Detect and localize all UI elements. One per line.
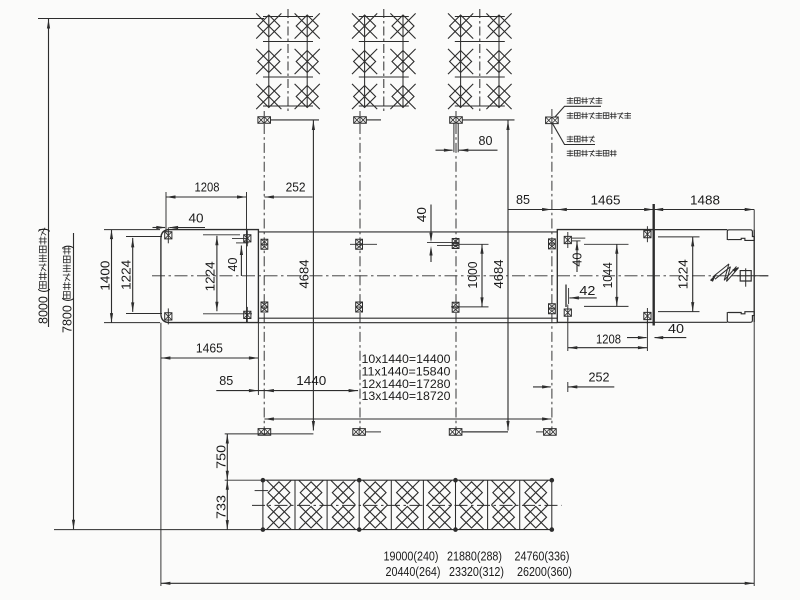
svg-text:1000: 1000 xyxy=(466,261,480,288)
dimension 40 (right of heavy line) xyxy=(627,337,647,339)
bottom anchor bolt x=455.6 xyxy=(449,429,462,436)
dimension line between outer bolt columns xyxy=(264,418,551,420)
band inner bottom edge xyxy=(258,317,557,319)
svg-text:40: 40 xyxy=(415,207,429,222)
leader line 1 (slot hole position) xyxy=(555,106,602,117)
anchor bolt below cluster 3 xyxy=(455,111,457,116)
bolt tail lines at y=120 xyxy=(271,119,319,121)
slot lines for 42 dim xyxy=(565,285,567,308)
anchor bolt below cluster 2 xyxy=(359,111,361,116)
dimension 1224 (inside plate) xyxy=(216,236,218,311)
svg-text:85: 85 xyxy=(219,374,233,388)
svg-text:4684: 4684 xyxy=(492,259,506,288)
dimension 40 (plate top) xyxy=(153,227,166,229)
svg-text:): ) xyxy=(61,245,75,249)
dimension 1465 (left) xyxy=(161,357,259,359)
overall bottom dimension line xyxy=(161,582,754,584)
dimension 1224 (far left) xyxy=(132,238,134,312)
anchor bolt below cluster 1 xyxy=(263,111,265,116)
extension line top (overall height reference) xyxy=(38,18,264,20)
dimension line 85 / 1465 / 1488 (top right) xyxy=(508,209,754,211)
bottom bolt row tail line xyxy=(225,433,314,435)
bolt pair column x=359.1 xyxy=(356,239,363,249)
extension line x=246.5 xyxy=(246,192,248,323)
extension line y=480.2 xyxy=(225,479,263,481)
strip centre line xyxy=(252,504,562,506)
svg-text:1488: 1488 xyxy=(690,194,720,208)
svg-text:7800 (: 7800 ( xyxy=(61,297,75,333)
extension line plate right edge down xyxy=(257,323,259,395)
bolt right plate top-left xyxy=(564,236,571,243)
bolt right plate top-right xyxy=(644,231,651,238)
dimension 750 xyxy=(226,434,228,480)
centre dash line below annotation bolt xyxy=(551,124,553,431)
bolt plate bottom-right xyxy=(244,311,251,318)
dimension 80 xyxy=(436,149,453,151)
dimension 252 (top) xyxy=(264,196,312,198)
svg-text:1440: 1440 xyxy=(296,374,326,388)
bracket bottom edge xyxy=(654,321,728,323)
extension lines for 1000 xyxy=(460,243,489,245)
extension of bracket right edge xyxy=(753,210,755,230)
bolt plate bottom-left xyxy=(165,313,172,320)
bracket top edge xyxy=(654,229,728,231)
svg-text:252: 252 xyxy=(589,371,610,385)
dimension 1208 (top) xyxy=(166,196,247,198)
slot lines (80 dim) below cluster 3 bolt xyxy=(453,124,455,153)
long extension line to 7800 arrow (strip bottom edge) xyxy=(54,529,263,531)
bottom anchor bolt x=549.9 xyxy=(544,429,557,436)
svg-text:21880(288): 21880(288) xyxy=(447,548,502,563)
centre dash line below cluster 2 xyxy=(359,124,361,431)
bottom roller strip frame xyxy=(263,479,552,481)
dimension 1044 xyxy=(616,244,618,306)
roller cluster 1 xyxy=(268,17,270,107)
leader line 2 (round hole position) xyxy=(553,124,596,145)
svg-text:19000(240): 19000(240) xyxy=(384,548,439,563)
svg-text:85: 85 xyxy=(516,193,530,207)
bottom anchor bolt x=264.4 xyxy=(258,429,271,436)
dimension 4684 (right vertical) xyxy=(507,121,509,431)
annotation text: round hole position xyxy=(567,136,574,138)
svg-text:733: 733 xyxy=(214,495,228,519)
bracket top hook xyxy=(727,230,754,241)
svg-text:750: 750 xyxy=(214,445,228,469)
break (zigzag) symbol xyxy=(713,264,729,277)
dimension 8000 line xyxy=(48,19,50,327)
bolt right plate bottom-right xyxy=(644,312,651,319)
svg-text:1400: 1400 xyxy=(99,261,113,291)
roller cluster 3 xyxy=(460,17,462,107)
horizontal centre line of assembly xyxy=(152,275,768,277)
svg-text:): ) xyxy=(37,228,51,232)
svg-text:23320(312): 23320(312) xyxy=(449,564,504,579)
dimension 733 xyxy=(226,480,228,529)
small tick at strip left xyxy=(255,490,269,492)
roller cluster 2 xyxy=(364,17,366,107)
svg-text:1224: 1224 xyxy=(677,259,691,289)
svg-text:252: 252 xyxy=(286,181,306,195)
bolt pair column x=551.9 (left of right plate) xyxy=(549,239,556,249)
extension line x=166 xyxy=(165,192,167,232)
dimension 40 (plate, vertical) xyxy=(240,246,242,277)
bolt plate top-left xyxy=(165,232,172,239)
bolt right plate bottom-left xyxy=(564,309,571,316)
centre dash line below cluster 1 xyxy=(263,124,265,431)
centre dash line below cluster 3 xyxy=(455,124,457,431)
extension lines for 1400 xyxy=(104,229,160,231)
svg-text:1208: 1208 xyxy=(195,181,220,195)
svg-text:1224: 1224 xyxy=(203,261,217,291)
svg-text:4684: 4684 xyxy=(297,259,311,288)
dimension 85 and 1440 line xyxy=(216,390,358,392)
anchor bolt for annotations xyxy=(551,109,553,116)
bolt pair column x=455.6 xyxy=(452,239,459,249)
svg-text:42: 42 xyxy=(579,283,595,298)
dimension 252 (right) xyxy=(533,386,551,388)
right end plate outline xyxy=(557,230,653,323)
extension lines for 1044 xyxy=(584,243,629,245)
annotation text: for anchor expansion bolt hole position xyxy=(567,113,574,115)
extension line plate left edge down xyxy=(160,323,162,586)
svg-text:26200(360): 26200(360) xyxy=(517,564,572,579)
dimension 1400 xyxy=(111,230,113,323)
svg-text:1465: 1465 xyxy=(591,194,621,208)
bracket right edge xyxy=(753,230,755,323)
svg-text:24760(336): 24760(336) xyxy=(515,548,570,563)
svg-text:13x1440=18720: 13x1440=18720 xyxy=(362,389,451,403)
bottom strip diamonds xyxy=(268,482,290,504)
svg-text:1044: 1044 xyxy=(601,262,615,288)
dimension 1208 (right) xyxy=(568,347,648,349)
dimension 40 (right plate, vertical) xyxy=(576,241,578,272)
dimension 1000 xyxy=(481,244,483,307)
junction dots on strip xyxy=(261,478,266,483)
dimension 42 xyxy=(569,297,596,299)
dimension 1224 (right) xyxy=(658,236,700,238)
svg-text:40: 40 xyxy=(189,212,204,226)
annotation text: slot hole position xyxy=(567,98,574,100)
svg-text:1465: 1465 xyxy=(196,342,223,356)
band top edge xyxy=(258,231,557,233)
bottom anchor bolt x=359.1 xyxy=(353,429,366,436)
svg-text:40: 40 xyxy=(571,253,585,267)
svg-text:40: 40 xyxy=(668,322,684,336)
solid centre line through square xyxy=(734,275,769,277)
bracket bottom hook xyxy=(727,312,754,323)
left end plate outline xyxy=(161,230,259,323)
bolt pair column x=264.4 xyxy=(261,239,268,249)
svg-text:80: 80 xyxy=(479,134,493,148)
bolt plate top-right xyxy=(244,235,251,242)
dimension 4684 (left vertical) xyxy=(312,121,314,431)
annotation text: for anchor bolt position xyxy=(567,150,574,152)
band outer bottom edge xyxy=(258,322,557,324)
svg-text:8000 (: 8000 ( xyxy=(37,288,51,324)
dimension 40 (middle, slot) xyxy=(430,205,432,241)
svg-text:1224: 1224 xyxy=(120,260,134,290)
svg-text:1208: 1208 xyxy=(596,333,621,347)
heavy separation line xyxy=(653,204,655,326)
svg-text:40: 40 xyxy=(226,257,240,271)
bracket centre square symbol xyxy=(740,271,751,281)
extension lines for 1224 left xyxy=(126,236,162,238)
dimension 7800 line xyxy=(73,233,75,529)
svg-text:20440(264): 20440(264) xyxy=(386,564,441,579)
